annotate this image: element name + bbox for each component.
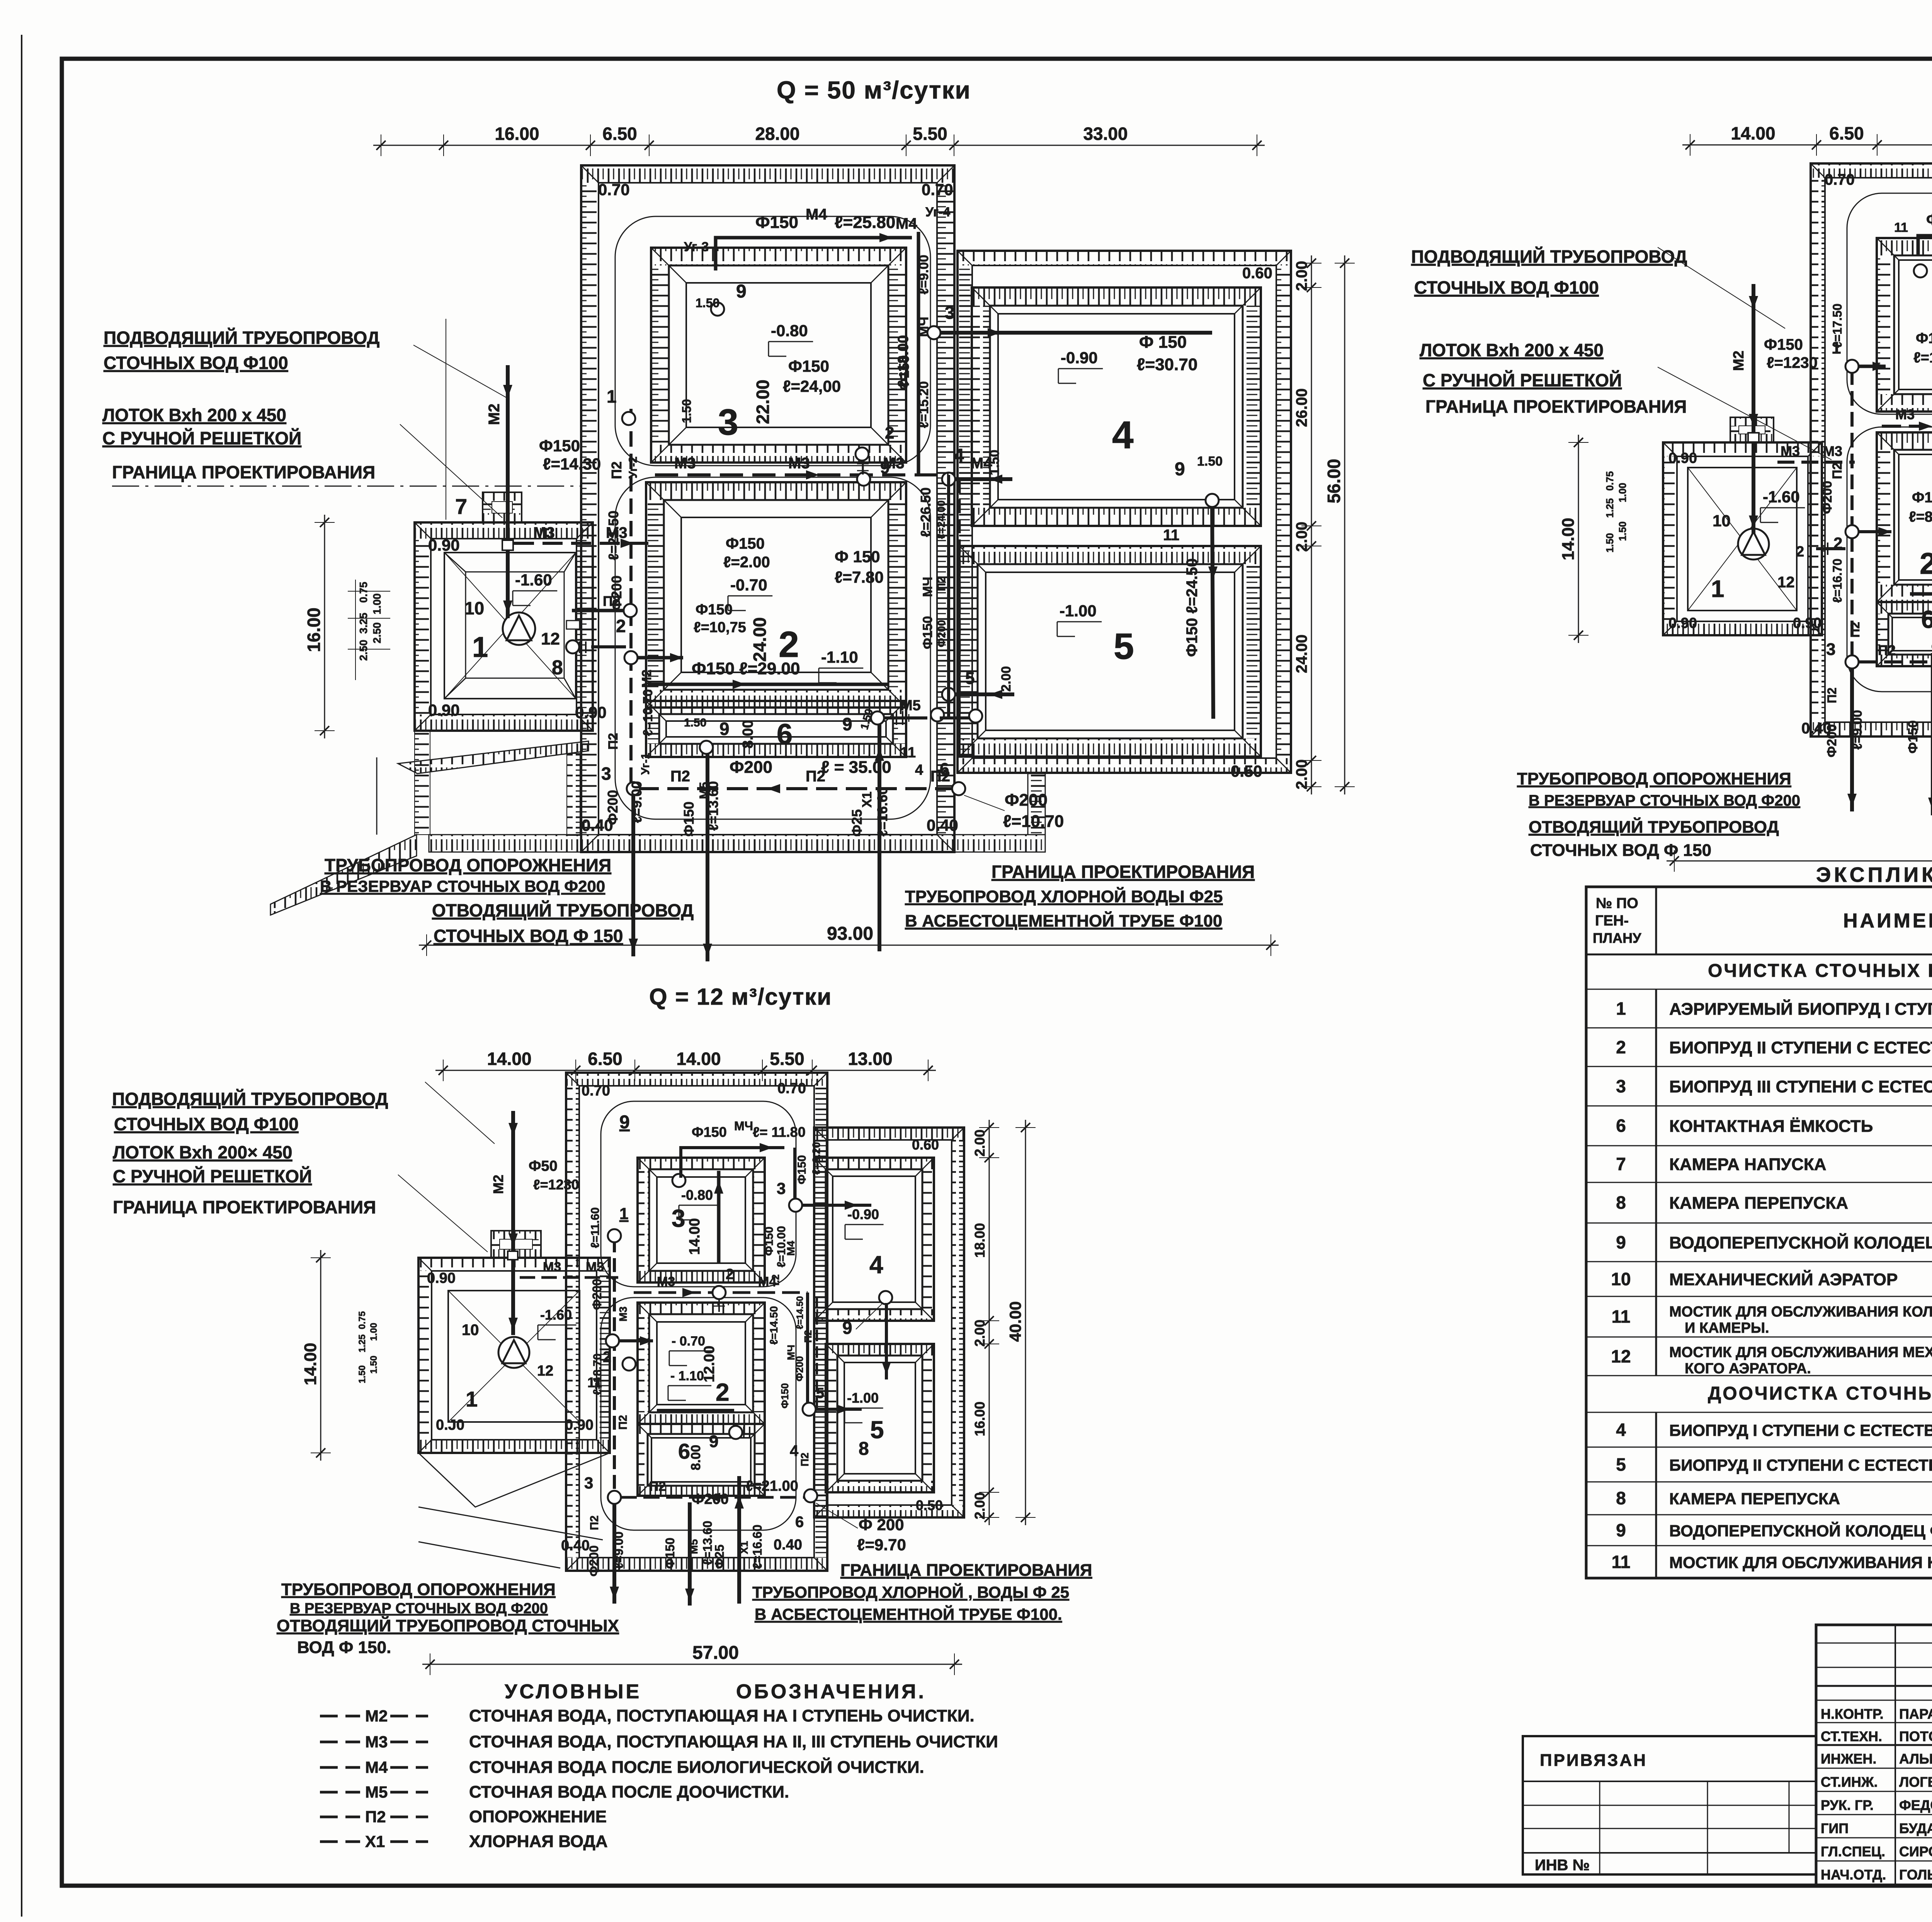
svg-text:Ф150: Ф150 <box>1916 330 1932 347</box>
svg-text:1.50: 1.50 <box>684 716 706 729</box>
svg-text:ТРУБОПРОВОД ОПОРОЖНЕНИЯ: ТРУБОПРОВОД ОПОРОЖНЕНИЯ <box>1517 769 1791 788</box>
svg-text:БИОПРУД III СТУПЕНИ С ЕСТЕСТ: БИОПРУД III СТУПЕНИ С ЕСТЕСТВЕННОЙ АЭРАЦ… <box>1669 1077 1932 1096</box>
svg-text:ℓ=24,00: ℓ=24,00 <box>783 377 841 395</box>
plan3 enclosure lobe basin3 <box>601 1101 796 1287</box>
svg-text:С РУЧНОЙ РЕШЕТКОЙ: С РУЧНОЙ РЕШЕТКОЙ <box>113 1166 312 1186</box>
svg-text:В РЕЗЕРВУАР СТОЧНЫХ ВОД Ф200: В РЕЗЕРВУАР СТОЧНЫХ ВОД Ф200 <box>320 877 605 895</box>
plan2 enclosure lobe around basins 2 and 6 <box>1847 427 1932 692</box>
svg-text:- 0.70: - 0.70 <box>672 1334 705 1349</box>
svg-text:П2: П2 <box>606 733 621 750</box>
basin 3 (biopond III stage) <box>651 248 906 265</box>
plan2 left dim 14.00 <box>1578 435 1579 643</box>
plan3 basin 2 <box>638 1303 765 1314</box>
plan2 M4 top pipe <box>1918 236 1932 255</box>
svg-text:СТОЧНЫХ ВОД Ф100: СТОЧНЫХ ВОД Ф100 <box>1414 277 1599 298</box>
mechanical aerator 10 <box>503 612 535 645</box>
svg-text:2.00: 2.00 <box>972 1320 988 1347</box>
svg-text:ℓ=9.70: ℓ=9.70 <box>857 1536 906 1554</box>
svg-text:0.90: 0.90 <box>1793 615 1821 631</box>
plan3 basin 1 inner <box>448 1291 580 1422</box>
svg-text:М4: М4 <box>971 455 992 472</box>
svg-text:14.00: 14.00 <box>301 1343 320 1385</box>
svg-text:Ф 200: Ф 200 <box>859 1515 904 1534</box>
svg-text:РУК. ГР.: РУК. ГР. <box>1821 1797 1874 1813</box>
svg-text:СТОЧНЫХ ВОД Ф100: СТОЧНЫХ ВОД Ф100 <box>104 353 288 373</box>
svg-text:КАМЕРА НАПУСКА: КАМЕРА НАПУСКА <box>1669 1155 1826 1174</box>
svg-text:П2: П2 <box>802 1330 814 1343</box>
basin 6 contact tank <box>646 701 906 714</box>
svg-text:0.40: 0.40 <box>561 1538 590 1554</box>
svg-text:9: 9 <box>1616 1232 1626 1252</box>
svg-text:П2: П2 <box>1825 687 1839 703</box>
plan2 well 2 <box>1845 525 1859 538</box>
svg-text:БИОПРУД II СТУПЕНИ С ЕСТЕСТВ: БИОПРУД II СТУПЕНИ С ЕСТЕСТВЕННОЙ АЭРАЦИ… <box>1669 1038 1932 1057</box>
plan1 enclosure lobe around basins 2 and 6 <box>615 477 930 819</box>
svg-text:М3: М3 <box>788 455 810 472</box>
svg-text:М5: М5 <box>697 782 711 799</box>
svg-text:Ф 150: Ф 150 <box>1139 333 1187 352</box>
svg-text:М2: М2 <box>365 1707 388 1725</box>
svg-text:ТРУБОПРОВОД ХЛОРНОЙ ВОДЫ Ф2: ТРУБОПРОВОД ХЛОРНОЙ ВОДЫ Ф25 <box>905 886 1223 906</box>
svg-text:ℓ=9.00: ℓ=9.00 <box>629 781 645 823</box>
plan3 basin5 entry <box>803 1403 816 1416</box>
basin 5 entry well <box>942 688 955 701</box>
svg-text:П2: П2 <box>935 577 948 591</box>
svg-text:2: 2 <box>616 616 626 636</box>
svg-text:8: 8 <box>859 1439 869 1459</box>
svg-text:ℓ=10,75: ℓ=10,75 <box>694 619 746 636</box>
plan3 drain M5 <box>688 1502 692 1606</box>
svg-text:ℓ=16.60: ℓ=16.60 <box>750 1525 764 1569</box>
basin 1 water rect and diagonals <box>466 572 564 678</box>
basin 4 well 9 right <box>1206 494 1219 507</box>
svg-text:СТОЧНАЯ ВОДА ПОСЛЕ БИОЛОГИЧ: СТОЧНАЯ ВОДА ПОСЛЕ БИОЛОГИЧЕСКОЙ ОЧИСТКИ… <box>469 1757 924 1777</box>
svg-text:0.60: 0.60 <box>912 1137 939 1153</box>
plan3 berm wedges <box>418 1453 610 1507</box>
plan3 P2 bottom <box>621 1496 811 1499</box>
well 6 bottom <box>952 782 965 795</box>
svg-text:П2: П2 <box>649 1479 666 1494</box>
svg-text:Ф200: Ф200 <box>794 1356 805 1381</box>
svg-text:4: 4 <box>869 1251 883 1279</box>
plan2 leader lotok <box>1658 367 1832 460</box>
svg-text:ЭКСПЛИКАЦИЯ: ЭКСПЛИКАЦИЯ <box>1816 863 1932 886</box>
plan2 drain P2 <box>1850 668 1854 811</box>
svg-text:ℓ=14.30: ℓ=14.30 <box>543 455 601 473</box>
svg-text:14.00: 14.00 <box>1731 123 1775 143</box>
basin 4 entry well 4 <box>942 473 955 486</box>
svg-text:9: 9 <box>619 1112 630 1133</box>
plan2 basin 2 pipe <box>1910 592 1932 596</box>
svg-text:ДООЧИСТКА СТОЧНЫХ ВОД: ДООЧИСТКА СТОЧНЫХ ВОД <box>1708 1383 1932 1404</box>
plan3 basin 6 M5 well <box>729 1426 742 1439</box>
svg-text:3: 3 <box>584 1474 593 1492</box>
svg-text:СТОЧНЫХ ВОД Ф 150: СТОЧНЫХ ВОД Ф 150 <box>434 926 623 946</box>
svg-text:1: 1 <box>1616 998 1626 1019</box>
svg-text:Q = 50 м³/сутки: Q = 50 м³/сутки <box>777 76 971 104</box>
svg-text:3: 3 <box>1826 640 1835 659</box>
svg-text:1.25: 1.25 <box>357 1334 367 1352</box>
svg-text:П2: П2 <box>670 768 690 785</box>
svg-text:Уг-4: Уг-4 <box>925 205 950 219</box>
svg-text:0.70: 0.70 <box>777 1080 806 1097</box>
svg-text:1.00: 1.00 <box>1617 483 1628 502</box>
svg-text:14.00: 14.00 <box>687 1218 703 1255</box>
basin 1 inner rect <box>444 553 576 699</box>
svg-text:УСЛОВНЫЕ: УСЛОВНЫЕ <box>505 1680 641 1703</box>
svg-text:М3: М3 <box>533 524 555 541</box>
plan3 M4 top <box>681 1148 784 1178</box>
boundary dashdot left <box>112 486 582 487</box>
svg-text:СТОЧНАЯ ВОДА, ПОСТУПАЮЩАЯ НА: СТОЧНАЯ ВОДА, ПОСТУПАЮЩАЯ НА II, III СТУ… <box>469 1732 998 1751</box>
svg-text:ОТВОДЯЩИЙ ТРУБОПРОВОД: ОТВОДЯЩИЙ ТРУБОПРОВОД <box>432 900 694 920</box>
svg-text:24.00: 24.00 <box>750 617 770 662</box>
svg-text:Ф150: Ф150 <box>1912 490 1932 506</box>
svg-text:Ф150: Ф150 <box>920 616 935 649</box>
svg-text:СТОЧНЫХ ВОД Ф100: СТОЧНЫХ ВОД Ф100 <box>114 1114 299 1134</box>
svg-text:М3: М3 <box>617 1306 629 1322</box>
svg-text:ВОДОПЕРЕПУСКНОЙ КОЛОДЕЦ Ф: ВОДОПЕРЕПУСКНОЙ КОЛОДЕЦ Ф15 <box>1669 1233 1932 1252</box>
svg-text:ТРУБОПРОВОД ХЛОРНОЙ , ВОДЫ Ф: ТРУБОПРОВОД ХЛОРНОЙ , ВОДЫ Ф 25 <box>752 1583 1069 1601</box>
junction wells 2 and 9 <box>855 447 869 461</box>
svg-text:П2: П2 <box>609 461 624 479</box>
svg-text:40.00: 40.00 <box>1006 1301 1024 1342</box>
svg-text:-0.80: -0.80 <box>771 321 808 340</box>
plan1 right dim chain inner <box>1311 255 1312 794</box>
svg-text:1.50: 1.50 <box>369 1356 379 1374</box>
basin 4 (biopond I stage polishing) <box>972 287 1261 306</box>
svg-text:Н.КОНТР.: Н.КОНТР. <box>1821 1706 1884 1722</box>
svg-text:ℓ=26.50: ℓ=26.50 <box>918 487 934 537</box>
plan1 lower berm band <box>429 835 954 852</box>
plan3 basin 6 <box>638 1424 765 1434</box>
svg-text:5: 5 <box>870 1416 884 1444</box>
svg-text:8: 8 <box>552 657 563 679</box>
svg-text:БИОПРУД II СТУПЕНИ С ЕСТЕСТВ: БИОПРУД II СТУПЕНИ С ЕСТЕСТВЕННОЙ АЭРАЦИ… <box>1669 1456 1932 1474</box>
plan3 M3 mid dashed <box>634 1291 808 1294</box>
svg-text:СИРОТА: СИРОТА <box>1899 1844 1932 1859</box>
chamber block basin 1 <box>415 522 593 539</box>
svg-text:ℓ=11.60: ℓ=11.60 <box>589 1207 602 1248</box>
svg-text:1: 1 <box>466 1387 478 1411</box>
plan3 basin4 entry pipe <box>802 1204 871 1207</box>
plan2 P2 vertical dashed <box>1850 370 1854 662</box>
svg-text:4: 4 <box>954 446 964 466</box>
svg-text:СТ.ТЕХН.: СТ.ТЕХН. <box>1821 1728 1882 1744</box>
svg-text:28.00: 28.00 <box>755 124 799 144</box>
plan2 aerator <box>1738 529 1769 560</box>
svg-text:ℓ=9.00: ℓ=9.00 <box>612 1531 626 1569</box>
plan2 basin 2 <box>1877 432 1932 450</box>
svg-text:М4: М4 <box>896 215 917 232</box>
svg-text:ℓ = 35.00: ℓ = 35.00 <box>821 758 891 777</box>
plan3 top dimension chain <box>435 1070 936 1071</box>
svg-text:СТ.ИНЖ.: СТ.ИНЖ. <box>1821 1774 1878 1790</box>
svg-text:16.00: 16.00 <box>495 124 539 144</box>
svg-text:18.00: 18.00 <box>972 1223 988 1258</box>
svg-text:ℓ=16.70: ℓ=16.70 <box>1830 559 1844 603</box>
svg-text:ℓ=25.80: ℓ=25.80 <box>835 213 895 232</box>
svg-text:М3: М3 <box>365 1733 388 1751</box>
plan3 aerator <box>498 1337 529 1368</box>
svg-text:ЛОГВИНСКАЯ: ЛОГВИНСКАЯ <box>1899 1774 1932 1790</box>
plan3 M3 pipe top <box>520 1276 618 1279</box>
pipe X1 vertical <box>878 725 881 951</box>
plan3 basin 3 <box>638 1158 765 1169</box>
svg-text:М2: М2 <box>490 1175 506 1194</box>
svg-text:2.00: 2.00 <box>1293 522 1310 552</box>
svg-text:ИНЖЕН.: ИНЖЕН. <box>1821 1751 1876 1767</box>
svg-text:2.00: 2.00 <box>999 666 1014 692</box>
svg-text:Ф150: Ф150 <box>726 535 765 552</box>
svg-text:9: 9 <box>1616 1520 1626 1540</box>
svg-text:4: 4 <box>915 762 923 778</box>
svg-text:М5: М5 <box>900 697 921 714</box>
svg-text:БИОПРУД I СТУПЕНИ С ЕСТЕСТВЕ: БИОПРУД I СТУПЕНИ С ЕСТЕСТВЕННОЙ АЭРАЦИЕ… <box>1669 1421 1932 1439</box>
svg-text:1: 1 <box>607 386 617 407</box>
svg-text:13.00: 13.00 <box>848 1049 892 1069</box>
svg-text:0.40: 0.40 <box>582 816 613 834</box>
plan3 right enclosure berm <box>814 1128 964 1140</box>
svg-text:ГЕН-: ГЕН- <box>1595 913 1629 929</box>
pipe M4 top <box>716 238 912 270</box>
svg-text:ℓ=8.75: ℓ=8.75 <box>1909 509 1932 525</box>
plan3 enclosure lobe basins 2 6 <box>601 1298 796 1530</box>
svg-text:ℓ=21.00: ℓ=21.00 <box>746 1478 798 1494</box>
svg-text:-1.00: -1.00 <box>1060 602 1097 620</box>
svg-text:ℓ=17.50: ℓ=17.50 <box>1830 304 1844 348</box>
plan1 right dim chain outer <box>1344 255 1345 794</box>
plan2 bottom dim 67.00 <box>1667 861 1932 862</box>
plan1 lower berm band right <box>954 835 1045 852</box>
svg-text:ℓ=30.70: ℓ=30.70 <box>1137 355 1197 374</box>
svg-text:ℓ=6.20: ℓ=6.20 <box>810 1142 822 1175</box>
svg-text:БУДАЕВА: БУДАЕВА <box>1899 1820 1932 1836</box>
plan1 bottom dim 93.00 <box>419 945 1279 946</box>
svg-text:Ф200: Ф200 <box>730 758 772 777</box>
svg-text:ℓ=2.00: ℓ=2.00 <box>723 554 770 571</box>
svg-text:2.00: 2.00 <box>1293 261 1310 291</box>
svg-text:0.50: 0.50 <box>1231 762 1262 780</box>
svg-text:ℓ=14.50: ℓ=14.50 <box>795 1296 805 1329</box>
svg-text:М2: М2 <box>639 670 654 688</box>
svg-text:1.50: 1.50 <box>1604 533 1616 553</box>
svg-text:5: 5 <box>1616 1454 1626 1475</box>
svg-text:-0.70: -0.70 <box>730 576 767 594</box>
svg-text:В РЕЗЕРВУАР СТОЧНЫХ ВОД Ф200: В РЕЗЕРВУАР СТОЧНЫХ ВОД Ф200 <box>290 1601 548 1617</box>
svg-text:16.00: 16.00 <box>304 607 324 652</box>
svg-text:АЛЬПЕРОВИЧ: АЛЬПЕРОВИЧ <box>1899 1751 1932 1767</box>
chamber 7 napuska notch <box>483 492 522 502</box>
svg-text:ПРИВЯЗАН: ПРИВЯЗАН <box>1540 1751 1647 1770</box>
pipe M3 left dashed <box>514 542 655 545</box>
svg-text:2: 2 <box>1796 544 1804 560</box>
well 2 mid <box>624 604 637 617</box>
plan2 basin 1 inner <box>1688 468 1797 611</box>
svg-text:МОСТИК ДЛЯ ОБСЛУЖИВАНИЯ МЕХ: МОСТИК ДЛЯ ОБСЛУЖИВАНИЯ МЕХАНИЧЕС- <box>1669 1344 1932 1361</box>
svg-text:М3: М3 <box>657 1274 675 1289</box>
svg-text:14.00: 14.00 <box>676 1049 721 1069</box>
svg-text:ТРУБОПРОВОД ОПОРОЖНЕНИЯ: ТРУБОПРОВОД ОПОРОЖНЕНИЯ <box>281 1580 556 1599</box>
plan2 basin 6 <box>1877 602 1932 614</box>
plan1 right enclosure berm <box>957 251 1291 265</box>
svg-text:Ф150: Ф150 <box>763 1226 776 1256</box>
svg-text:9: 9 <box>880 458 889 477</box>
svg-text:0.75: 0.75 <box>357 1311 367 1329</box>
svg-text:Ф150: Ф150 <box>663 1538 677 1569</box>
svg-text:Ф200: Ф200 <box>935 620 947 647</box>
plan2 leader podvod <box>1658 247 1785 328</box>
svg-text:8.00: 8.00 <box>740 720 756 748</box>
svg-text:0.90: 0.90 <box>575 703 607 721</box>
svg-text:ХЛОРНАЯ ВОДА: ХЛОРНАЯ ВОДА <box>469 1832 608 1851</box>
svg-text:0.40: 0.40 <box>774 1537 802 1553</box>
plan3 right dim chain outer <box>1025 1120 1026 1525</box>
svg-text:М2: М2 <box>486 403 503 425</box>
svg-text:ГРАНИЦА ПРОЕКТИРОВАНИЯ: ГРАНИЦА ПРОЕКТИРОВАНИЯ <box>113 1197 376 1217</box>
svg-text:9: 9 <box>842 1318 852 1338</box>
svg-text:4: 4 <box>1616 1420 1626 1440</box>
svg-text:ОЧИСТКА СТОЧНЫХ ВОД: ОЧИСТКА СТОЧНЫХ ВОД <box>1708 961 1932 981</box>
svg-text:56.00: 56.00 <box>1324 459 1344 503</box>
svg-text:1.50: 1.50 <box>1197 454 1223 469</box>
svg-text:Q = 12 м³/сутки: Q = 12 м³/сутки <box>649 984 832 1010</box>
svg-text:ℓ=16.60: ℓ=16.60 <box>874 787 890 837</box>
pipe M2 inflow <box>506 365 510 540</box>
plan3 well 1 <box>608 1229 621 1242</box>
svg-text:ГРАНИЦА ПРОЕКТИРОВАНИЯ: ГРАНИЦА ПРОЕКТИРОВАНИЯ <box>112 462 375 482</box>
plan2 M3 mid dashed <box>1882 425 1932 428</box>
svg-text:ℓ=10.70: ℓ=10.70 <box>1003 812 1064 831</box>
svg-text:ЛОТОК Вxh 200× 450: ЛОТОК Вxh 200× 450 <box>113 1142 292 1162</box>
svg-text:9: 9 <box>719 719 730 739</box>
plan3 basin 2 pipe <box>657 1409 734 1412</box>
svg-text:0.70: 0.70 <box>582 1083 610 1099</box>
basin 4 entry pipe <box>955 477 1012 481</box>
svg-text:3: 3 <box>718 402 738 443</box>
svg-text:6: 6 <box>940 760 949 779</box>
svg-text:6: 6 <box>777 718 793 750</box>
svg-text:9: 9 <box>709 1432 718 1451</box>
svg-text:М4: М4 <box>365 1758 388 1776</box>
plan3 P2 vertical <box>613 1238 616 1497</box>
svg-text:2: 2 <box>1616 1037 1626 1057</box>
pipe P2 vertical dashed <box>629 409 633 789</box>
svg-text:10: 10 <box>1713 512 1731 530</box>
svg-text:0.60: 0.60 <box>1242 265 1272 282</box>
svg-text:М3: М3 <box>1895 407 1915 422</box>
svg-text:11: 11 <box>1894 220 1908 235</box>
svg-text:ℓ=9.00: ℓ=9.00 <box>1850 710 1865 750</box>
plan3 basin 1 block <box>418 1258 610 1271</box>
svg-text:X1: X1 <box>738 1541 750 1554</box>
svg-text:М5: М5 <box>1930 720 1932 736</box>
svg-text:26.00: 26.00 <box>1293 388 1310 427</box>
svg-text:12: 12 <box>541 629 560 648</box>
plan3 drain P2 <box>612 1504 616 1604</box>
svg-text:М3: М3 <box>586 1260 604 1274</box>
svg-text:ПОДВОДЯЩИЙ ТРУБОПРОВОД: ПОДВОДЯЩИЙ ТРУБОПРОВОД <box>1411 247 1687 267</box>
svg-text:Ф 150: Ф 150 <box>835 548 880 566</box>
svg-text:ℓ=21.50: ℓ=21.50 <box>605 510 621 560</box>
hatch mark at junction <box>862 461 864 475</box>
svg-text:П2: П2 <box>1848 622 1862 638</box>
well 1 <box>622 412 635 425</box>
svg-text:ℓ=10.70: ℓ=10.70 <box>641 689 655 736</box>
svg-text:0.90: 0.90 <box>428 536 460 554</box>
svg-text:0.90: 0.90 <box>565 1417 594 1433</box>
svg-text:И КАМЕРЫ.: И КАМЕРЫ. <box>1685 1320 1769 1336</box>
svg-text:ОТВОДЯЩИЙ ТРУБОПРОВОД СТОЧНЫХ: ОТВОДЯЩИЙ ТРУБОПРОВОД СТОЧНЫХ <box>277 1616 619 1635</box>
plan2 basin 3 <box>1877 238 1932 255</box>
svg-text:Ф150: Ф150 <box>1764 336 1803 353</box>
privyazan table <box>1523 1736 1816 1874</box>
svg-text:12: 12 <box>537 1363 553 1379</box>
titleblock grid <box>1816 1685 1932 1687</box>
svg-text:ℓ=1230: ℓ=1230 <box>533 1177 579 1192</box>
svg-text:Ф200: Ф200 <box>609 575 624 611</box>
svg-text:0.90: 0.90 <box>1668 450 1697 466</box>
svg-text:Ф150: Ф150 <box>692 1124 727 1140</box>
svg-text:-0.80: -0.80 <box>681 1187 713 1203</box>
svg-text:КОНТАКТНАЯ ЁМКОСТЬ: КОНТАКТНАЯ ЁМКОСТЬ <box>1669 1117 1873 1136</box>
svg-text:1.50: 1.50 <box>680 399 694 423</box>
svg-text:-0.90: -0.90 <box>1061 349 1098 367</box>
svg-text:24.00: 24.00 <box>1293 634 1310 673</box>
svg-text:ГИП: ГИП <box>1821 1820 1849 1836</box>
svg-text:ПОДВОДЯЩИЙ ТРУБОПРОВОД: ПОДВОДЯЩИЙ ТРУБОПРОВОД <box>112 1089 388 1109</box>
svg-text:8: 8 <box>1616 1192 1626 1213</box>
svg-text:Ф200: Ф200 <box>590 1279 604 1310</box>
plan3 well 2 pair <box>606 1334 619 1347</box>
svg-text:0.90: 0.90 <box>427 1270 456 1286</box>
svg-text:МОСТИК ДЛЯ ОБСЛУЖИВАНИЯ КОЛО: МОСТИК ДЛЯ ОБСЛУЖИВАНИЯ КОЛОДЦА И КАМЕРЫ <box>1669 1553 1932 1572</box>
svg-text:7: 7 <box>455 494 467 519</box>
svg-text:0.70: 0.70 <box>598 180 630 199</box>
plan2 basin 1 block <box>1663 442 1822 456</box>
svg-text:ПЛАНУ: ПЛАНУ <box>1593 930 1641 946</box>
svg-text:КОГО АЭРАТОРА.: КОГО АЭРАТОРА. <box>1685 1361 1811 1377</box>
basin 3 well 9 <box>711 303 724 316</box>
svg-text:СТОЧНАЯ ВОДА ПОСЛЕ ДООЧИСТК: СТОЧНАЯ ВОДА ПОСЛЕ ДООЧИСТКИ. <box>469 1783 789 1801</box>
svg-text:2.50: 2.50 <box>357 640 369 661</box>
svg-text:6.50: 6.50 <box>588 1049 622 1069</box>
basin 5 entry pipe <box>955 692 1014 696</box>
svg-text:6.50: 6.50 <box>602 124 637 144</box>
svg-text:ℓ=14.50: ℓ=14.50 <box>768 1306 780 1345</box>
svg-text:М3: М3 <box>1823 443 1842 459</box>
svg-text:ℓ=9.00: ℓ=9.00 <box>917 255 931 294</box>
well 3 bottom <box>627 782 640 795</box>
svg-text:5.50: 5.50 <box>770 1049 804 1069</box>
svg-text:9: 9 <box>736 281 747 302</box>
svg-text:Ф150: Ф150 <box>788 357 829 375</box>
svg-text:0.50: 0.50 <box>916 1497 943 1513</box>
svg-text:Ф150 ℓ=29.00: Ф150 ℓ=29.00 <box>692 659 800 678</box>
plan2 well 3 bottom <box>1845 655 1859 668</box>
svg-text:2.00: 2.00 <box>1293 759 1310 789</box>
svg-text:П2: П2 <box>1878 642 1896 658</box>
plan1 berm wedge lines <box>376 757 378 835</box>
svg-text:Уг-3: Уг-3 <box>684 240 709 254</box>
svg-text:7: 7 <box>1616 1154 1626 1174</box>
plan2 basin 3 well 9 <box>1914 264 1927 277</box>
plan3 right dim chain inner <box>989 1120 990 1525</box>
svg-text:МЕХАНИЧЕСКИЙ АЭРАТОР: МЕХАНИЧЕСКИЙ АЭРАТОР <box>1669 1269 1898 1289</box>
plan2 top dimension chain <box>1682 145 1932 146</box>
svg-text:12: 12 <box>1611 1346 1631 1366</box>
svg-text:Ф150: Ф150 <box>696 602 733 618</box>
